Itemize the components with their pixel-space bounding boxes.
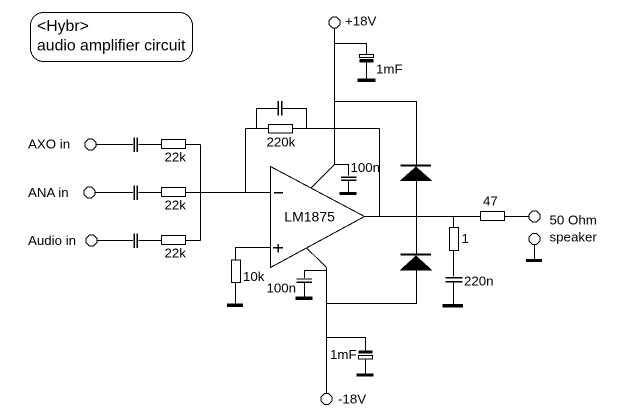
wire [505, 216, 530, 218]
capacitor C9 220n [446, 274, 494, 289]
terminal Audio in [28, 233, 97, 248]
wire [139, 144, 162, 146]
svg-text:50 Ohm: 50 Ohm [550, 213, 597, 228]
capacitor C4 (feedback) [257, 101, 307, 128]
terminal -18V [321, 392, 366, 407]
capacitor C8 1mF (-rail) [330, 347, 373, 373]
diode D2 [400, 254, 433, 271]
wire [416, 181, 418, 217]
ground [357, 373, 374, 376]
diode D1 [400, 165, 433, 182]
wire -V rail to diode D2 [327, 271, 417, 304]
resistor R7 1 [450, 228, 469, 251]
wire to op-amp inverting input [186, 192, 271, 194]
capacitor C6 100n (V+) [341, 160, 380, 192]
svg-text:LM1875: LM1875 [284, 209, 335, 225]
svg-text:22k: 22k [165, 198, 187, 213]
wire zobel branch [453, 217, 455, 228]
wire to clamp diode D1 [335, 102, 417, 165]
svg-text:1: 1 [462, 231, 469, 246]
svg-text:10k: 10k [243, 269, 265, 284]
resistor R5 10k [232, 260, 265, 284]
op-amp U1 LM1875 [271, 167, 365, 268]
svg-text:220k: 220k [267, 135, 296, 150]
svg-text:ANA in: ANA in [28, 185, 69, 200]
wire [97, 240, 133, 242]
wire [96, 144, 133, 146]
svg-text:+18V: +18V [345, 14, 377, 29]
resistor R3 22k [162, 236, 187, 261]
capacitor C7 100n (V-) [267, 279, 313, 297]
terminal speaker - [529, 230, 597, 245]
wire output [365, 216, 481, 218]
wire [95, 192, 133, 194]
wire [186, 240, 201, 242]
wire [327, 338, 366, 351]
wire V- rail [326, 268, 328, 394]
svg-text:speaker: speaker [550, 230, 598, 245]
wire [453, 251, 455, 277]
terminal speaker + [529, 211, 597, 227]
terminal AXO in [28, 137, 96, 152]
resistor R1 22k [162, 140, 187, 165]
wire [139, 240, 162, 242]
terminal +18V [329, 14, 376, 29]
svg-text:audio amplifier circuit: audio amplifier circuit [37, 38, 186, 55]
wire [534, 244, 536, 259]
wire [235, 283, 237, 304]
wire [453, 283, 455, 305]
svg-text:100n: 100n [267, 281, 297, 296]
ground [340, 192, 357, 195]
wire [186, 144, 201, 146]
svg-text:100n: 100n [351, 160, 381, 175]
title box [31, 13, 193, 62]
ground [296, 297, 313, 300]
wire [139, 192, 162, 194]
op-amp V- supply pin [307, 248, 327, 268]
resistor R2 22k [162, 188, 187, 213]
svg-text:1mF: 1mF [330, 347, 357, 362]
capacitor C1 (AXO coupling) [134, 138, 137, 153]
wire [416, 217, 418, 254]
wire [335, 44, 367, 55]
capacitor C2 (ANA coupling) [134, 186, 137, 201]
svg-text:220n: 220n [464, 274, 494, 289]
capacitor C3 (Audio coupling) [134, 234, 137, 249]
svg-text:AXO in: AXO in [28, 137, 70, 152]
wire to op-amp non-inverting input [236, 248, 271, 261]
svg-text:Audio in: Audio in [28, 233, 76, 248]
wire [305, 271, 327, 279]
resistor R6 47 [481, 194, 505, 221]
ground [358, 79, 376, 82]
wire [335, 165, 349, 176]
wire +V rail [334, 28, 336, 165]
terminal ANA in [28, 185, 95, 200]
ground [526, 259, 542, 262]
wire feedback to output [379, 129, 381, 217]
svg-text:-18V: -18V [338, 392, 366, 407]
svg-text:22k: 22k [165, 246, 187, 261]
resistor R4 220k [267, 125, 296, 150]
wire feedback left [245, 129, 247, 193]
svg-text:47: 47 [483, 194, 498, 209]
svg-text:22k: 22k [165, 150, 187, 165]
capacitor C5 1mF (+rail) [360, 55, 403, 79]
op-amp V+ supply pin [311, 165, 335, 189]
ground [443, 304, 464, 307]
svg-text:<Hybr>: <Hybr> [37, 18, 89, 35]
wire input bus [200, 145, 202, 241]
svg-text:1mF: 1mF [376, 62, 403, 77]
wire feedback rail [246, 128, 380, 130]
ground [227, 304, 243, 308]
